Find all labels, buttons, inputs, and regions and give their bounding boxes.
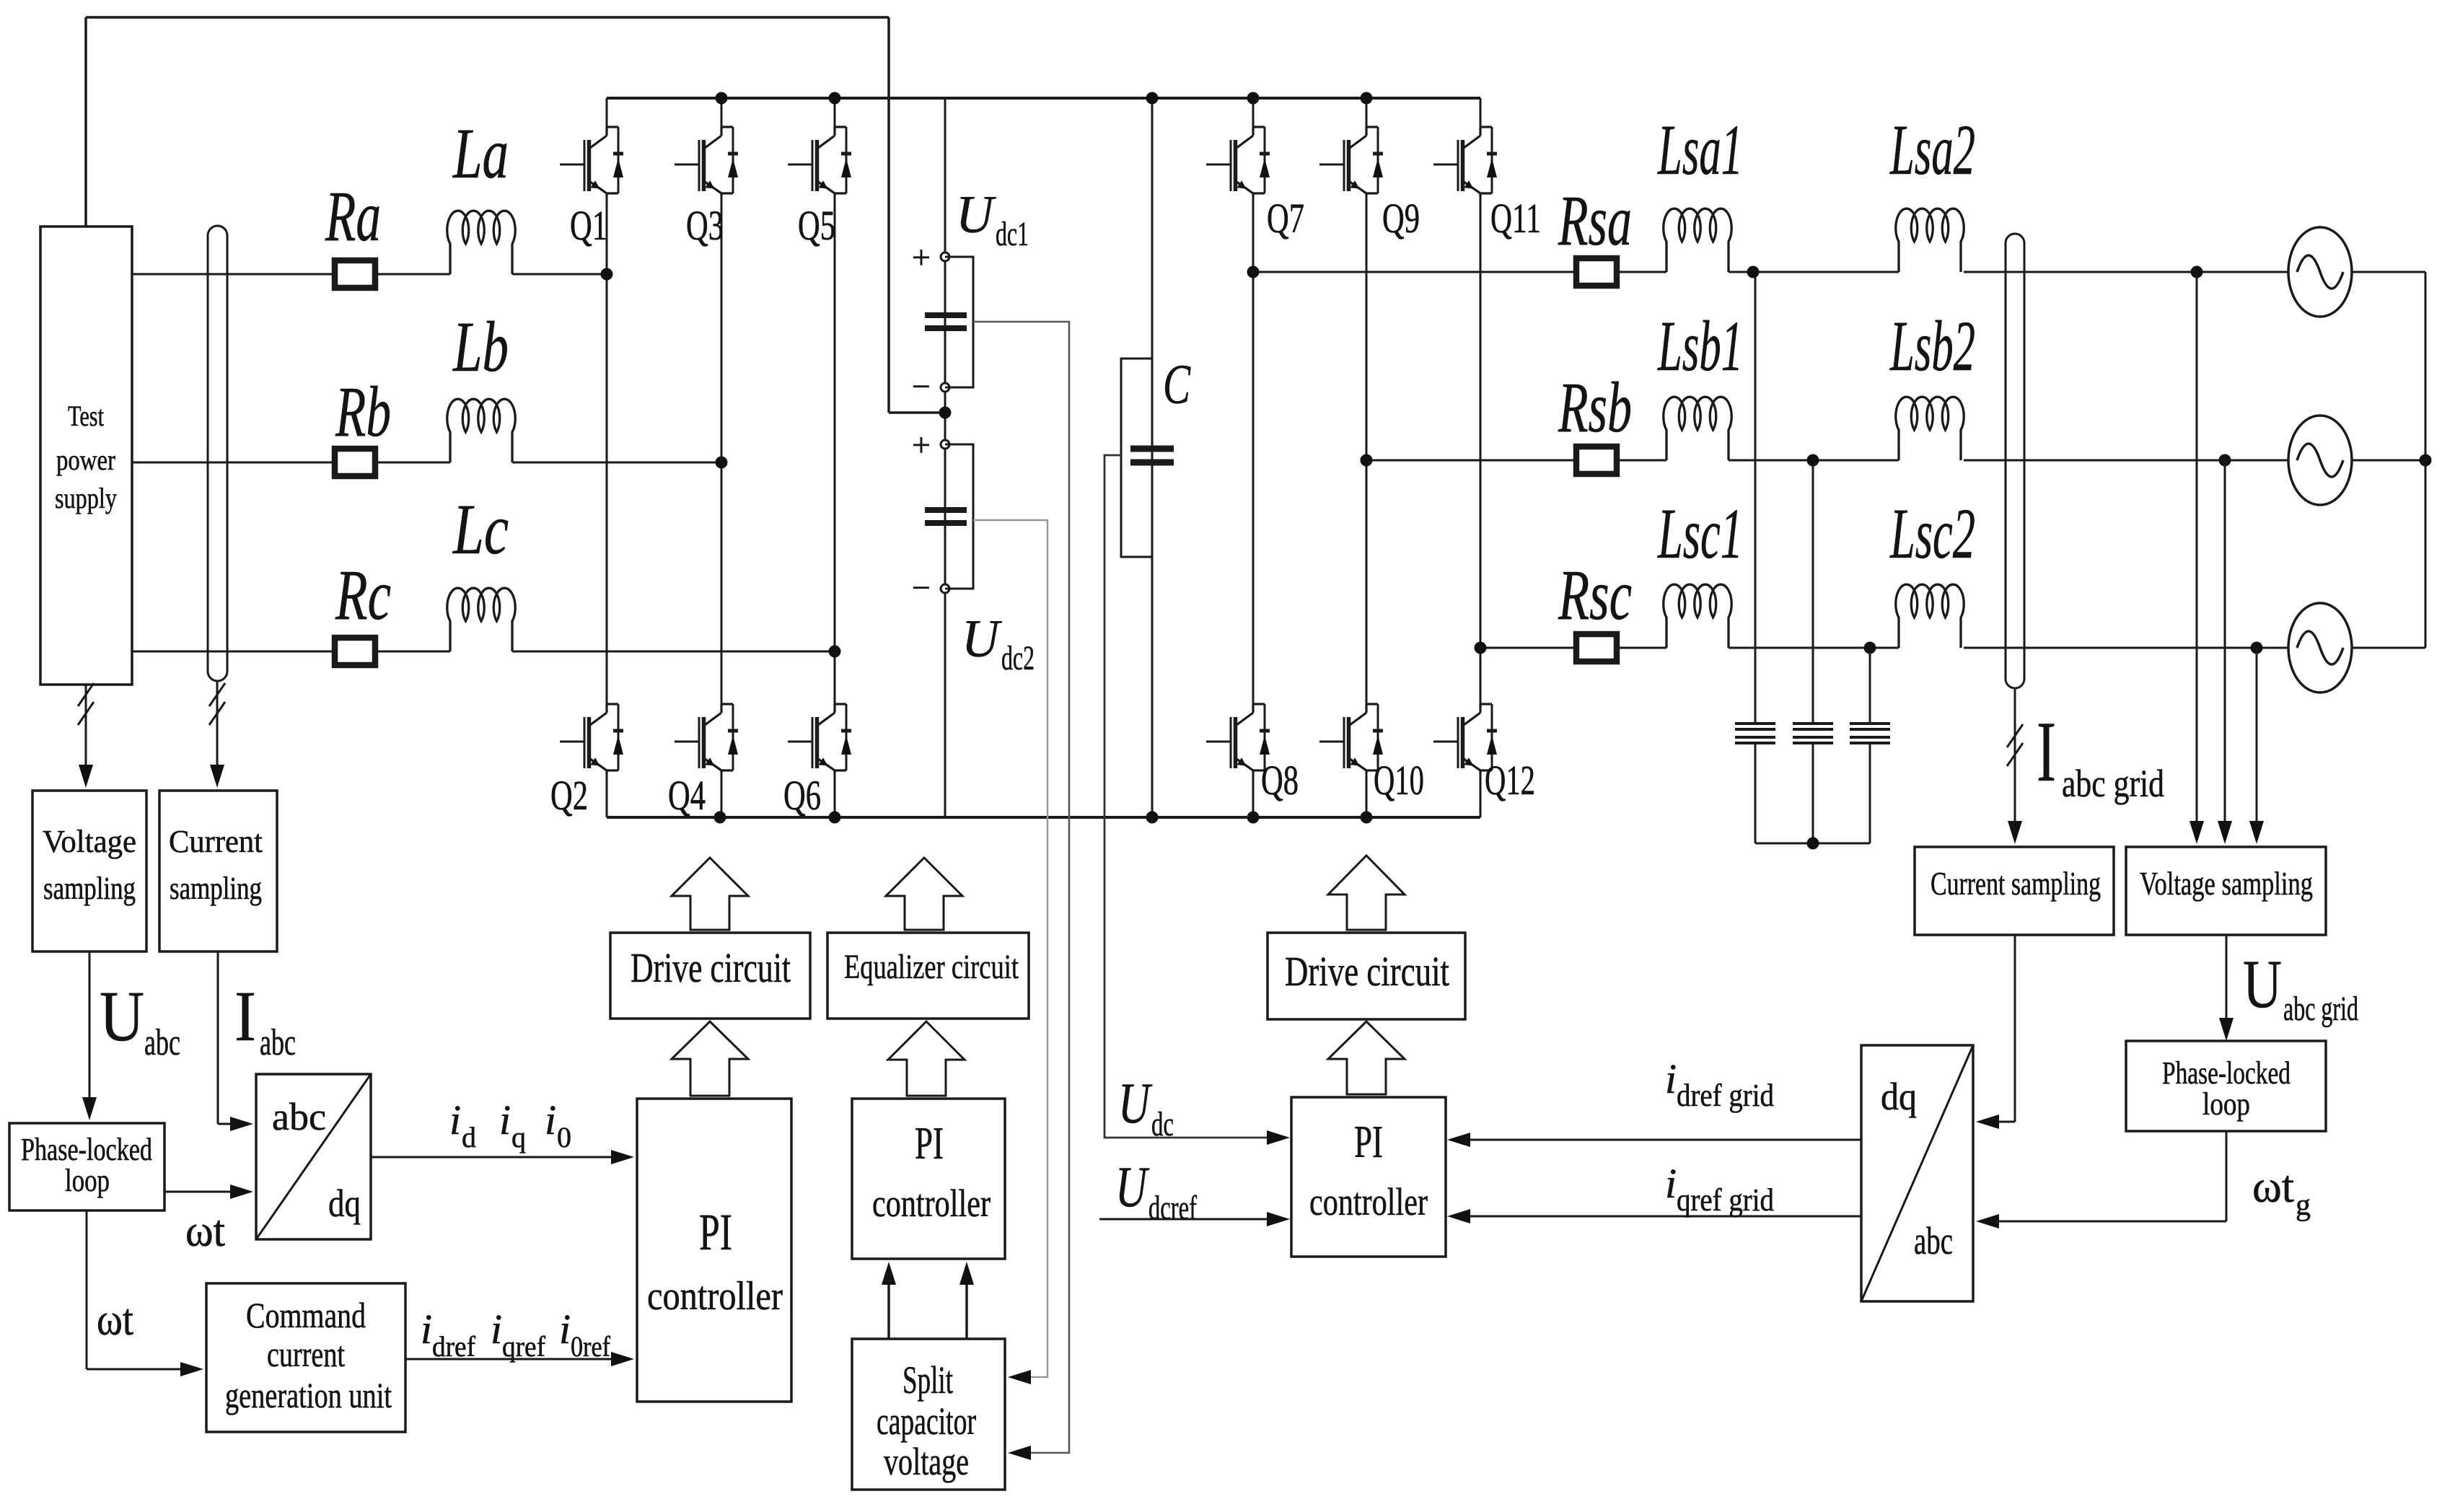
svg-text:Rsb: Rsb	[1558, 367, 1632, 447]
block arrow PI to equalizer	[888, 1021, 965, 1096]
resistor Rsa	[1576, 258, 1617, 286]
svg-text:dq: dq	[328, 1182, 361, 1225]
split capacitor voltage box	[852, 1339, 1005, 1490]
svg-text:Lc: Lc	[452, 489, 509, 569]
svg-text:I: I	[234, 976, 256, 1056]
svg-text:sampling: sampling	[43, 871, 136, 906]
svg-text:Current: Current	[169, 824, 263, 859]
current sampling box (left)	[159, 791, 277, 951]
svg-text:dref grid: dref grid	[1677, 1078, 1774, 1113]
svg-text:U: U	[1118, 1072, 1153, 1135]
svg-text:ωt: ωt	[97, 1296, 133, 1345]
inductor Lsc1	[1664, 584, 1731, 648]
svg-text:ωt: ωt	[185, 1207, 225, 1256]
svg-text:PI: PI	[1354, 1116, 1383, 1167]
svg-text:Q1: Q1	[570, 202, 607, 249]
svg-text:Voltage sampling: Voltage sampling	[2140, 865, 2313, 902]
svg-text:Drive circuit: Drive circuit	[631, 944, 791, 991]
svg-text:−: −	[912, 368, 931, 405]
svg-text:I: I	[2037, 703, 2056, 799]
transistor Q8	[1206, 741, 1231, 743]
svg-text:loop: loop	[65, 1163, 110, 1198]
resistor Rb	[335, 449, 375, 476]
inductor Lsa2	[1896, 208, 1964, 272]
svg-text:U: U	[2243, 946, 2282, 1022]
svg-text:Q7: Q7	[1267, 195, 1304, 242]
svg-text:Phase-locked: Phase-locked	[21, 1132, 152, 1167]
svg-text:abc: abc	[1914, 1219, 1953, 1262]
svg-text:dcref: dcref	[1148, 1189, 1197, 1227]
svg-text:qref: qref	[502, 1330, 546, 1363]
svg-text:abc grid: abc grid	[2062, 762, 2164, 805]
svg-text:Test: Test	[68, 400, 104, 432]
wire phase c right	[1480, 647, 1576, 649]
wire transducer to current sampling	[216, 681, 219, 772]
transistor Q11	[1433, 164, 1458, 166]
svg-text:Lsb1: Lsb1	[1657, 306, 1743, 386]
svg-text:abc: abc	[260, 1022, 296, 1063]
wire Udc2 tap to split box	[973, 520, 1047, 1377]
wire phase b left	[132, 462, 335, 464]
equalizer circuit box	[827, 933, 1029, 1019]
inductor Lsb1	[1664, 397, 1731, 460]
svg-text:Lsa1: Lsa1	[1657, 110, 1743, 190]
wire phase b right	[1366, 460, 1576, 462]
svg-text:dc2: dc2	[1001, 639, 1035, 677]
svg-text:i: i	[491, 1306, 502, 1353]
inductor Lc	[447, 588, 516, 651]
svg-text:Q2: Q2	[550, 772, 588, 819]
svg-text:+: +	[912, 239, 931, 276]
node dots filter taps	[1747, 266, 1760, 278]
inductor La	[447, 211, 515, 274]
wire leg x=1157	[834, 98, 836, 128]
svg-text:i: i	[1665, 1055, 1677, 1102]
block arrow drive to converter (right)	[1328, 856, 1405, 930]
drive circuit box (right)	[1268, 933, 1465, 1019]
resistor Rsb	[1576, 447, 1617, 474]
node dots phase left	[601, 268, 613, 281]
capacitor Udc2	[941, 440, 949, 449]
svg-text:Lsc2: Lsc2	[1889, 493, 1975, 573]
drive circuit box (left)	[610, 933, 810, 1019]
PI controller box (equalizer)	[852, 1099, 1005, 1259]
wire voltage sampling to PLL	[2226, 935, 2228, 1025]
voltage sampling box (grid)	[2126, 847, 2326, 935]
svg-text:Rsa: Rsa	[1558, 180, 1632, 260]
svg-text:d: d	[462, 1121, 476, 1153]
block arrow PI to drive (right)	[1328, 1021, 1405, 1094]
wire current sampling to dq-abc	[2014, 935, 2016, 1122]
node dots bottom bus	[714, 812, 726, 824]
svg-text:0ref: 0ref	[571, 1330, 611, 1363]
svg-text:Command: Command	[246, 1295, 366, 1335]
svg-text:Lsc1: Lsc1	[1657, 493, 1743, 573]
svg-text:controller: controller	[1309, 1180, 1428, 1223]
svg-text:Phase-locked: Phase-locked	[2162, 1055, 2291, 1091]
svg-text:dref: dref	[432, 1330, 476, 1363]
svg-text:Drive circuit: Drive circuit	[1285, 948, 1449, 995]
current transducer (grid)	[2006, 234, 2024, 688]
PI controller box (left)	[637, 1099, 791, 1402]
transistor Q9	[1319, 164, 1344, 166]
transistor Q4	[675, 741, 699, 743]
current transducer (left)	[208, 226, 227, 681]
block arrow drive to converter (left)	[672, 858, 748, 930]
wire Uabc to PLL	[89, 951, 91, 1104]
wire leg right x=2052	[1480, 98, 1482, 128]
wire PLL to abc-dq	[164, 1191, 238, 1193]
inductor Lsc2	[1896, 584, 1964, 648]
transistor Q7	[1206, 164, 1231, 166]
svg-text:PI: PI	[699, 1203, 732, 1261]
PI controller box (right)	[1291, 1097, 1446, 1257]
svg-text:U: U	[1115, 1156, 1150, 1219]
block arrow equalizer to converter	[886, 858, 962, 930]
wire DC bus right	[1151, 98, 1154, 817]
wire leg x=841	[606, 98, 608, 128]
grid neutral bus	[2425, 272, 2427, 648]
inductor Lsb2	[1896, 397, 1964, 460]
transistor Q10	[1319, 741, 1344, 743]
abc-dq transform box	[256, 1074, 371, 1239]
svg-text:sampling: sampling	[170, 871, 262, 906]
svg-text:Q3: Q3	[686, 202, 724, 249]
svg-text:Current sampling: Current sampling	[1931, 865, 2101, 902]
AC source y=638	[2288, 416, 2352, 505]
filter capacitor phase a	[1754, 272, 1757, 724]
wire PSU to voltage sampling	[85, 685, 87, 772]
svg-text:Rb: Rb	[335, 372, 391, 452]
svg-text:U: U	[100, 976, 144, 1056]
resistor Rc	[335, 638, 375, 665]
svg-text:controller: controller	[647, 1274, 783, 1319]
voltage sampling box (left)	[32, 791, 146, 951]
wire leg x=1000	[721, 98, 723, 128]
wire phase a left	[132, 273, 335, 276]
svg-text:q: q	[511, 1121, 526, 1153]
dq-abc transform box	[1861, 1045, 1973, 1301]
svg-text:Voltage: Voltage	[43, 824, 136, 859]
wire iqref grid	[1463, 1216, 1861, 1218]
wire Iabc to abc-dq	[217, 951, 219, 1124]
filter capacitor phase b	[1812, 460, 1814, 724]
svg-text:current: current	[267, 1334, 345, 1374]
svg-text:Q12: Q12	[1485, 757, 1535, 804]
wire DC-link string	[944, 98, 947, 817]
block arrow PI to drive (left)	[672, 1021, 748, 1096]
transistor Q12	[1433, 741, 1458, 743]
svg-text:loop: loop	[2202, 1086, 2250, 1122]
svg-text:abc grid: abc grid	[2283, 990, 2358, 1028]
wire phase a right	[1253, 271, 1576, 273]
svg-text:dc: dc	[1151, 1105, 1174, 1143]
svg-text:supply: supply	[55, 482, 117, 514]
phase-locked loop box (grid)	[2126, 1041, 2326, 1131]
svg-text:Q6: Q6	[783, 772, 821, 819]
svg-text:i: i	[449, 1096, 461, 1143]
wire PLL to dq-abc (grid)	[2226, 1131, 2228, 1221]
wires split to PI (equalizer)	[887, 1278, 890, 1339]
resistor Rsc	[1576, 634, 1617, 661]
node DC midpoint	[939, 407, 952, 419]
svg-text:i: i	[421, 1306, 432, 1353]
AC source y=377	[2288, 227, 2352, 317]
wire abc-dq to PI controller	[371, 1156, 618, 1159]
wire Udc1 tap to split box	[973, 322, 1069, 1453]
inductor Lb	[447, 399, 516, 462]
svg-text:Q10: Q10	[1374, 757, 1424, 804]
wire phase c left	[132, 651, 335, 653]
current sampling box (grid)	[1915, 847, 2114, 935]
svg-text:C: C	[1163, 353, 1191, 416]
svg-text:0: 0	[557, 1121, 571, 1153]
wire PLL to command unit	[86, 1210, 88, 1369]
phase-locked loop box (left)	[9, 1123, 164, 1210]
svg-text:ωt: ωt	[2252, 1161, 2294, 1212]
svg-text:Lsb2: Lsb2	[1889, 306, 1975, 386]
capacitor Udc1	[941, 252, 949, 261]
transistor Q6	[788, 741, 812, 743]
wire Udcref to PI controller (right)	[1099, 1218, 1274, 1221]
svg-text:Q9: Q9	[1382, 195, 1420, 242]
svg-text:abc: abc	[272, 1095, 326, 1138]
transistor Q3	[675, 164, 699, 166]
svg-text:Q11: Q11	[1490, 195, 1541, 242]
svg-text:Equalizer circuit: Equalizer circuit	[844, 948, 1019, 986]
svg-text:U: U	[962, 610, 1002, 669]
DC bus bottom	[607, 816, 1480, 819]
svg-text:i: i	[545, 1096, 556, 1143]
svg-text:Split: Split	[902, 1358, 953, 1402]
svg-text:voltage: voltage	[884, 1440, 969, 1483]
svg-text:controller: controller	[872, 1182, 991, 1225]
svg-text:PI: PI	[915, 1117, 944, 1169]
svg-text:i: i	[559, 1306, 571, 1353]
svg-text:capacitor: capacitor	[877, 1399, 976, 1443]
command current generation unit box	[206, 1283, 405, 1432]
wire command to PI controller	[405, 1358, 618, 1361]
svg-text:Lb: Lb	[452, 307, 509, 387]
svg-text:Rsc: Rsc	[1558, 555, 1632, 635]
svg-text:Q8: Q8	[1261, 757, 1299, 804]
svg-text:power: power	[56, 444, 115, 476]
resistor Ra	[335, 260, 375, 288]
svg-text:g: g	[2296, 1189, 2311, 1222]
wire top loop from test power supply to DC midpoint	[86, 16, 889, 19]
inductor Lsa1	[1664, 208, 1732, 272]
svg-text:qref grid: qref grid	[1677, 1182, 1774, 1218]
transistor Q1	[560, 164, 584, 166]
capacitor C	[1130, 446, 1174, 452]
svg-text:+: +	[912, 426, 931, 463]
svg-text:Lsa2: Lsa2	[1889, 110, 1975, 190]
svg-text:−: −	[912, 569, 931, 606]
wire leg right x=1737	[1252, 98, 1255, 128]
AC source y=898	[2288, 603, 2352, 693]
svg-text:Ra: Ra	[325, 176, 381, 256]
svg-text:La: La	[452, 113, 509, 193]
wire transducer to current sampling (grid)	[2014, 688, 2016, 828]
node dots top bus	[716, 92, 728, 105]
wire Udc tap to PI controller (right)	[1104, 455, 1274, 1138]
transistor Q2	[560, 741, 584, 743]
svg-text:dc1: dc1	[996, 215, 1029, 253]
node dots phase right	[1247, 266, 1260, 278]
svg-text:Rc: Rc	[335, 555, 391, 635]
svg-text:Q5: Q5	[798, 202, 835, 249]
svg-text:i: i	[1665, 1160, 1677, 1207]
svg-text:Q4: Q4	[668, 772, 706, 819]
transistor Q5	[788, 164, 812, 166]
node dots voltage taps	[2191, 266, 2203, 278]
svg-text:abc: abc	[144, 1022, 180, 1063]
filter neutral wire	[1755, 843, 1870, 845]
wire leg right x=1894	[1366, 98, 1368, 128]
filter capacitor phase c	[1869, 648, 1871, 724]
svg-text:dq: dq	[1881, 1075, 1917, 1118]
wire idref grid	[1463, 1139, 1861, 1141]
wires voltage taps to voltage sampling	[2196, 272, 2198, 828]
test power supply box	[40, 227, 132, 685]
svg-text:i: i	[499, 1096, 511, 1143]
svg-text:generation unit: generation unit	[225, 1375, 392, 1415]
DC bus top	[607, 97, 1480, 100]
svg-text:U: U	[956, 185, 996, 245]
